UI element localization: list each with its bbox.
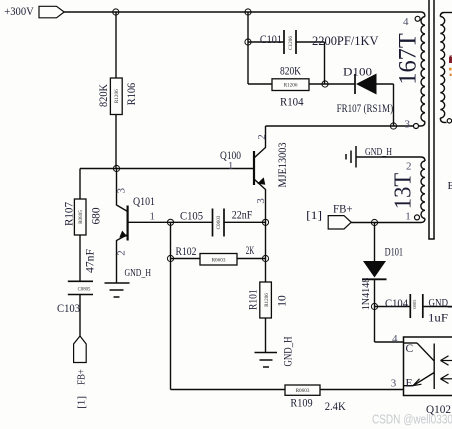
svg-text:D100: D100 bbox=[343, 65, 372, 79]
svg-text:820K: 820K bbox=[280, 64, 301, 78]
svg-text:2: 2 bbox=[406, 161, 412, 173]
svg-text:1N4148: 1N4148 bbox=[360, 277, 372, 310]
svg-text:680: 680 bbox=[90, 207, 102, 224]
svg-text:10: 10 bbox=[276, 295, 288, 307]
svg-text:R101: R101 bbox=[247, 289, 259, 310]
svg-text:C105: C105 bbox=[180, 211, 203, 223]
svg-text:R106: R106 bbox=[126, 83, 138, 106]
svg-text:CSDN @well0330: CSDN @well0330 bbox=[372, 413, 452, 427]
svg-text:3: 3 bbox=[391, 378, 397, 390]
svg-text:167T: 167T bbox=[395, 33, 422, 85]
svg-text:4: 4 bbox=[392, 333, 398, 345]
svg-text:R0805: R0805 bbox=[78, 210, 84, 224]
svg-text:R0603: R0603 bbox=[212, 258, 226, 264]
svg-text:C103: C103 bbox=[57, 303, 80, 315]
svg-text:22nF: 22nF bbox=[232, 210, 253, 222]
svg-text:E: E bbox=[406, 378, 413, 390]
svg-text:C0805: C0805 bbox=[78, 287, 91, 292]
svg-text:C0603: C0603 bbox=[216, 215, 222, 229]
svg-text:1: 1 bbox=[405, 210, 411, 222]
svg-text:FB+: FB+ bbox=[75, 369, 87, 385]
svg-text:R0603: R0603 bbox=[296, 388, 310, 394]
svg-text:D101: D101 bbox=[385, 247, 404, 259]
svg-text:R1206: R1206 bbox=[284, 83, 298, 89]
svg-text:R1206: R1206 bbox=[264, 293, 270, 307]
svg-text:[1]: [1] bbox=[306, 210, 322, 222]
svg-text:3: 3 bbox=[255, 198, 267, 204]
svg-text:4: 4 bbox=[403, 16, 409, 28]
svg-text:C101: C101 bbox=[260, 34, 282, 46]
svg-text:R107: R107 bbox=[64, 202, 76, 226]
svg-text:C104: C104 bbox=[385, 298, 408, 310]
svg-text:820K: 820K bbox=[98, 83, 110, 107]
svg-text:47nF: 47nF bbox=[85, 249, 97, 273]
svg-text:1: 1 bbox=[228, 160, 234, 172]
svg-text:+300V: +300V bbox=[4, 4, 34, 18]
svg-text:R104: R104 bbox=[280, 95, 304, 109]
svg-text:C: C bbox=[406, 343, 414, 355]
svg-text:E: E bbox=[448, 180, 452, 192]
svg-text:3: 3 bbox=[405, 119, 411, 131]
svg-text:1uF: 1uF bbox=[428, 311, 448, 325]
svg-text:[1]: [1] bbox=[76, 396, 88, 409]
svg-text:3: 3 bbox=[116, 187, 128, 193]
svg-text:R102: R102 bbox=[176, 246, 197, 258]
svg-text:2200PF/1KV: 2200PF/1KV bbox=[312, 34, 379, 48]
svg-text:2: 2 bbox=[256, 134, 268, 140]
svg-text:0805: 0805 bbox=[412, 299, 417, 309]
svg-text:R1206: R1206 bbox=[114, 89, 120, 103]
svg-text:MJE13003: MJE13003 bbox=[277, 142, 289, 187]
svg-text:FR107 (RS1M): FR107 (RS1M) bbox=[337, 101, 394, 115]
svg-text:GND_H: GND_H bbox=[125, 267, 152, 279]
svg-text:1: 1 bbox=[150, 210, 156, 222]
svg-text:2.4K: 2.4K bbox=[325, 399, 346, 413]
svg-text:Q101: Q101 bbox=[133, 194, 155, 208]
svg-text:2: 2 bbox=[116, 250, 128, 256]
svg-text:R109: R109 bbox=[290, 396, 312, 410]
svg-text:C1206: C1206 bbox=[288, 36, 294, 50]
svg-text:GND_H: GND_H bbox=[365, 146, 392, 158]
svg-text:GND_H: GND_H bbox=[283, 337, 295, 367]
svg-text:FB+: FB+ bbox=[333, 204, 353, 216]
svg-text:13T: 13T bbox=[391, 172, 417, 209]
svg-text:2K: 2K bbox=[246, 245, 255, 257]
svg-text:GND_B: GND_B bbox=[429, 297, 452, 309]
